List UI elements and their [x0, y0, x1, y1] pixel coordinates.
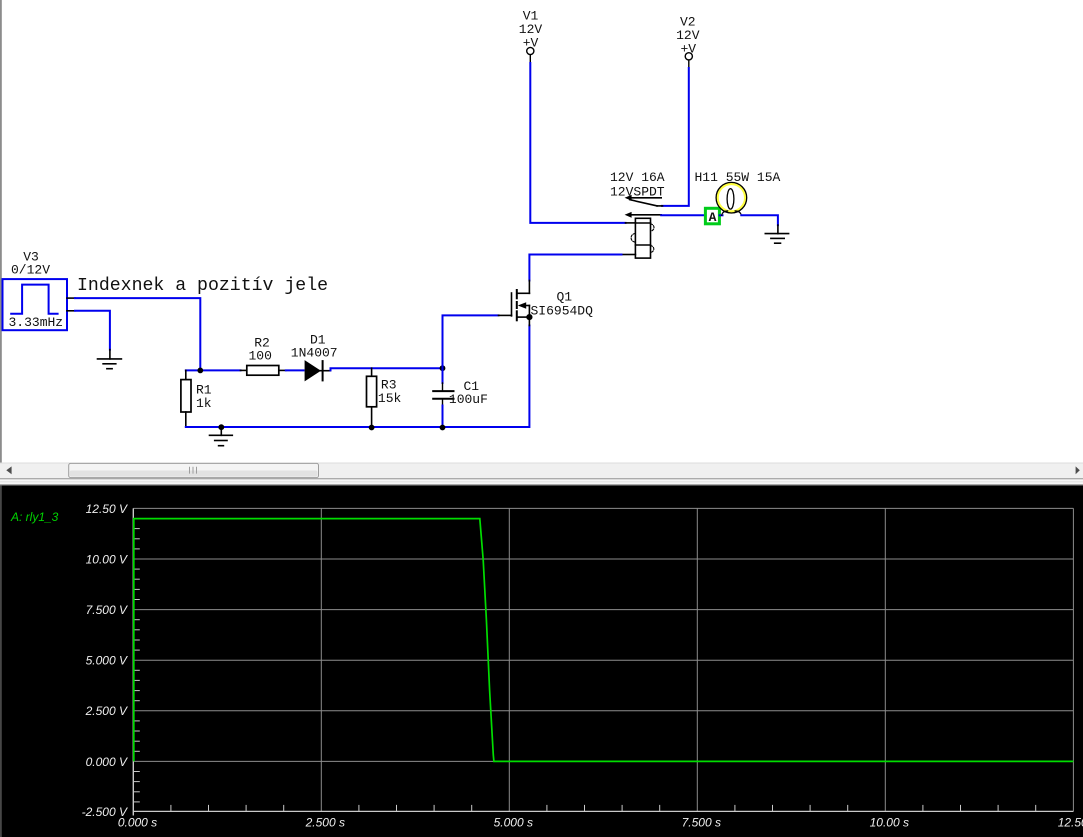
wire V3 plus to node R1: [75, 298, 200, 370]
wire V2 to relay switch throw: [662, 68, 689, 206]
svg-text:Q1: Q1: [557, 290, 573, 305]
svg-text:1N4007: 1N4007: [291, 346, 338, 361]
ground under rail: [210, 427, 233, 446]
node dot rail ground: [218, 424, 224, 430]
svg-text:0.000 V: 0.000 V: [86, 755, 128, 769]
resistor R3: [367, 368, 377, 427]
horizontal gridlines: [133, 508, 1073, 761]
svg-text:H11 55W 15A: H11 55W 15A: [695, 170, 781, 185]
scrollbar gap strip: [0, 479, 1083, 485]
resistor R1: [181, 370, 191, 427]
window left border: [0, 0, 2, 463]
text label Indexnek a pozitiv jele: [77, 276, 328, 296]
resistor R3 label: [378, 378, 402, 406]
power source V1 label: [519, 9, 543, 51]
wire V1 to relay coil pin 1: [530, 63, 625, 223]
wire V3 minus to ground: [75, 311, 110, 350]
wire Q1 drain to relay coil pin 2: [529, 255, 621, 281]
wire ammeter to lamp: [720, 214, 723, 216]
x axis labels: [118, 816, 1083, 830]
wire lamp to ground: [741, 215, 778, 225]
PLOT: [0, 485, 1083, 837]
svg-text:A: A: [709, 210, 717, 225]
svg-text:SI6954DQ: SI6954DQ: [531, 304, 594, 319]
scrollbar right arrow: [1076, 466, 1080, 474]
generator V3 box: [3, 279, 68, 330]
vertical gridlines: [321, 508, 1073, 811]
relay RL1 switch contacts: [630, 198, 663, 215]
plot background: [0, 485, 1083, 837]
y axis line: [132, 508, 134, 815]
svg-text:12.50 s: 12.50 s: [1058, 816, 1083, 830]
svg-text:100uF: 100uF: [449, 392, 488, 407]
svg-text:1k: 1k: [196, 396, 212, 411]
node dot at gate node: [440, 365, 446, 371]
scrollbar track: [0, 463, 1083, 479]
scrollbar thumb: [69, 463, 319, 477]
generator V3 labels: [9, 250, 64, 331]
lamp H11 bulb: [716, 182, 747, 215]
resistor R1 label: [196, 383, 212, 412]
diode D1: [305, 361, 330, 380]
ground right of lamp: [765, 225, 788, 243]
relay RL1 coil: [622, 218, 651, 258]
svg-text:12V 16A: 12V 16A: [610, 170, 665, 185]
svg-text:100: 100: [249, 349, 272, 364]
transistor Q1 label: [531, 290, 594, 319]
wire relay lower contact to ammeter: [661, 214, 705, 216]
svg-text:12.50 V: 12.50 V: [86, 502, 128, 516]
node dot Q1 source: [526, 314, 532, 320]
ammeter A: [705, 208, 719, 225]
wire D1 to node C1: [331, 368, 443, 370]
node dot rail R3: [369, 425, 375, 431]
svg-text:0.000 s: 0.000 s: [118, 816, 157, 830]
resistor R2 label: [249, 336, 272, 364]
ground under V3: [98, 350, 122, 369]
power source V2 label: [676, 15, 700, 57]
node dot at R1 top: [197, 368, 203, 374]
bottom ground rail wire: [186, 326, 530, 428]
schematic background: [0, 0, 1083, 463]
diode D1 label: [291, 333, 338, 361]
capacitor C1: [433, 368, 453, 427]
lamp H11 label: [695, 170, 781, 185]
y axis labels: [82, 502, 128, 819]
wire gate node to Q1 gate: [443, 315, 499, 368]
power source V2 terminal: [685, 53, 692, 68]
scrollbar thumb grip: [190, 467, 197, 474]
relay RL1 coil arcs: [631, 224, 654, 252]
svg-text:3.33mHz: 3.33mHz: [9, 315, 64, 330]
svg-text:7.500 s: 7.500 s: [682, 816, 721, 830]
plot window left border: [0, 485, 2, 837]
power source V1 terminal: [527, 47, 534, 63]
svg-text:2.500 V: 2.500 V: [85, 704, 128, 718]
generator V3 output leads: [67, 298, 75, 311]
svg-text:Indexnek a pozitív jele: Indexnek a pozitív jele: [77, 276, 328, 296]
svg-text:2.500 s: 2.500 s: [305, 816, 345, 830]
svg-text:10.00 V: 10.00 V: [86, 552, 128, 566]
svg-text:0/12V: 0/12V: [11, 263, 50, 278]
resistor R2: [241, 366, 286, 376]
scrollbar left arrow: [6, 466, 11, 474]
trace A rly1_3: [134, 519, 1074, 762]
x axis minor ticks: [171, 805, 1036, 812]
y axis minor ticks: [133, 519, 140, 802]
relay RL1 labels 12V 16A / 12VSPDT: [610, 170, 665, 200]
svg-text:A: rly1_3: A: rly1_3: [10, 510, 59, 524]
svg-text:7.500 V: 7.500 V: [86, 603, 128, 617]
node dot rail C1: [440, 425, 446, 431]
transistor Q1 bulk arrow: [518, 302, 526, 308]
svg-text:5.000 s: 5.000 s: [494, 816, 533, 830]
transistor Q1 MOSFET: [499, 281, 530, 326]
SCROLLBAR: [0, 463, 1083, 486]
svg-text:15k: 15k: [378, 391, 402, 406]
capacitor C1 label: [449, 379, 488, 407]
svg-text:10.00 s: 10.00 s: [870, 816, 909, 830]
wire R2 to D1: [286, 369, 304, 371]
x axis line: [133, 810, 1073, 812]
svg-text:5.000 V: 5.000 V: [86, 654, 128, 668]
wire mid rail R1 to R2: [186, 369, 241, 371]
relay RL1 contact arrows: [625, 195, 632, 218]
